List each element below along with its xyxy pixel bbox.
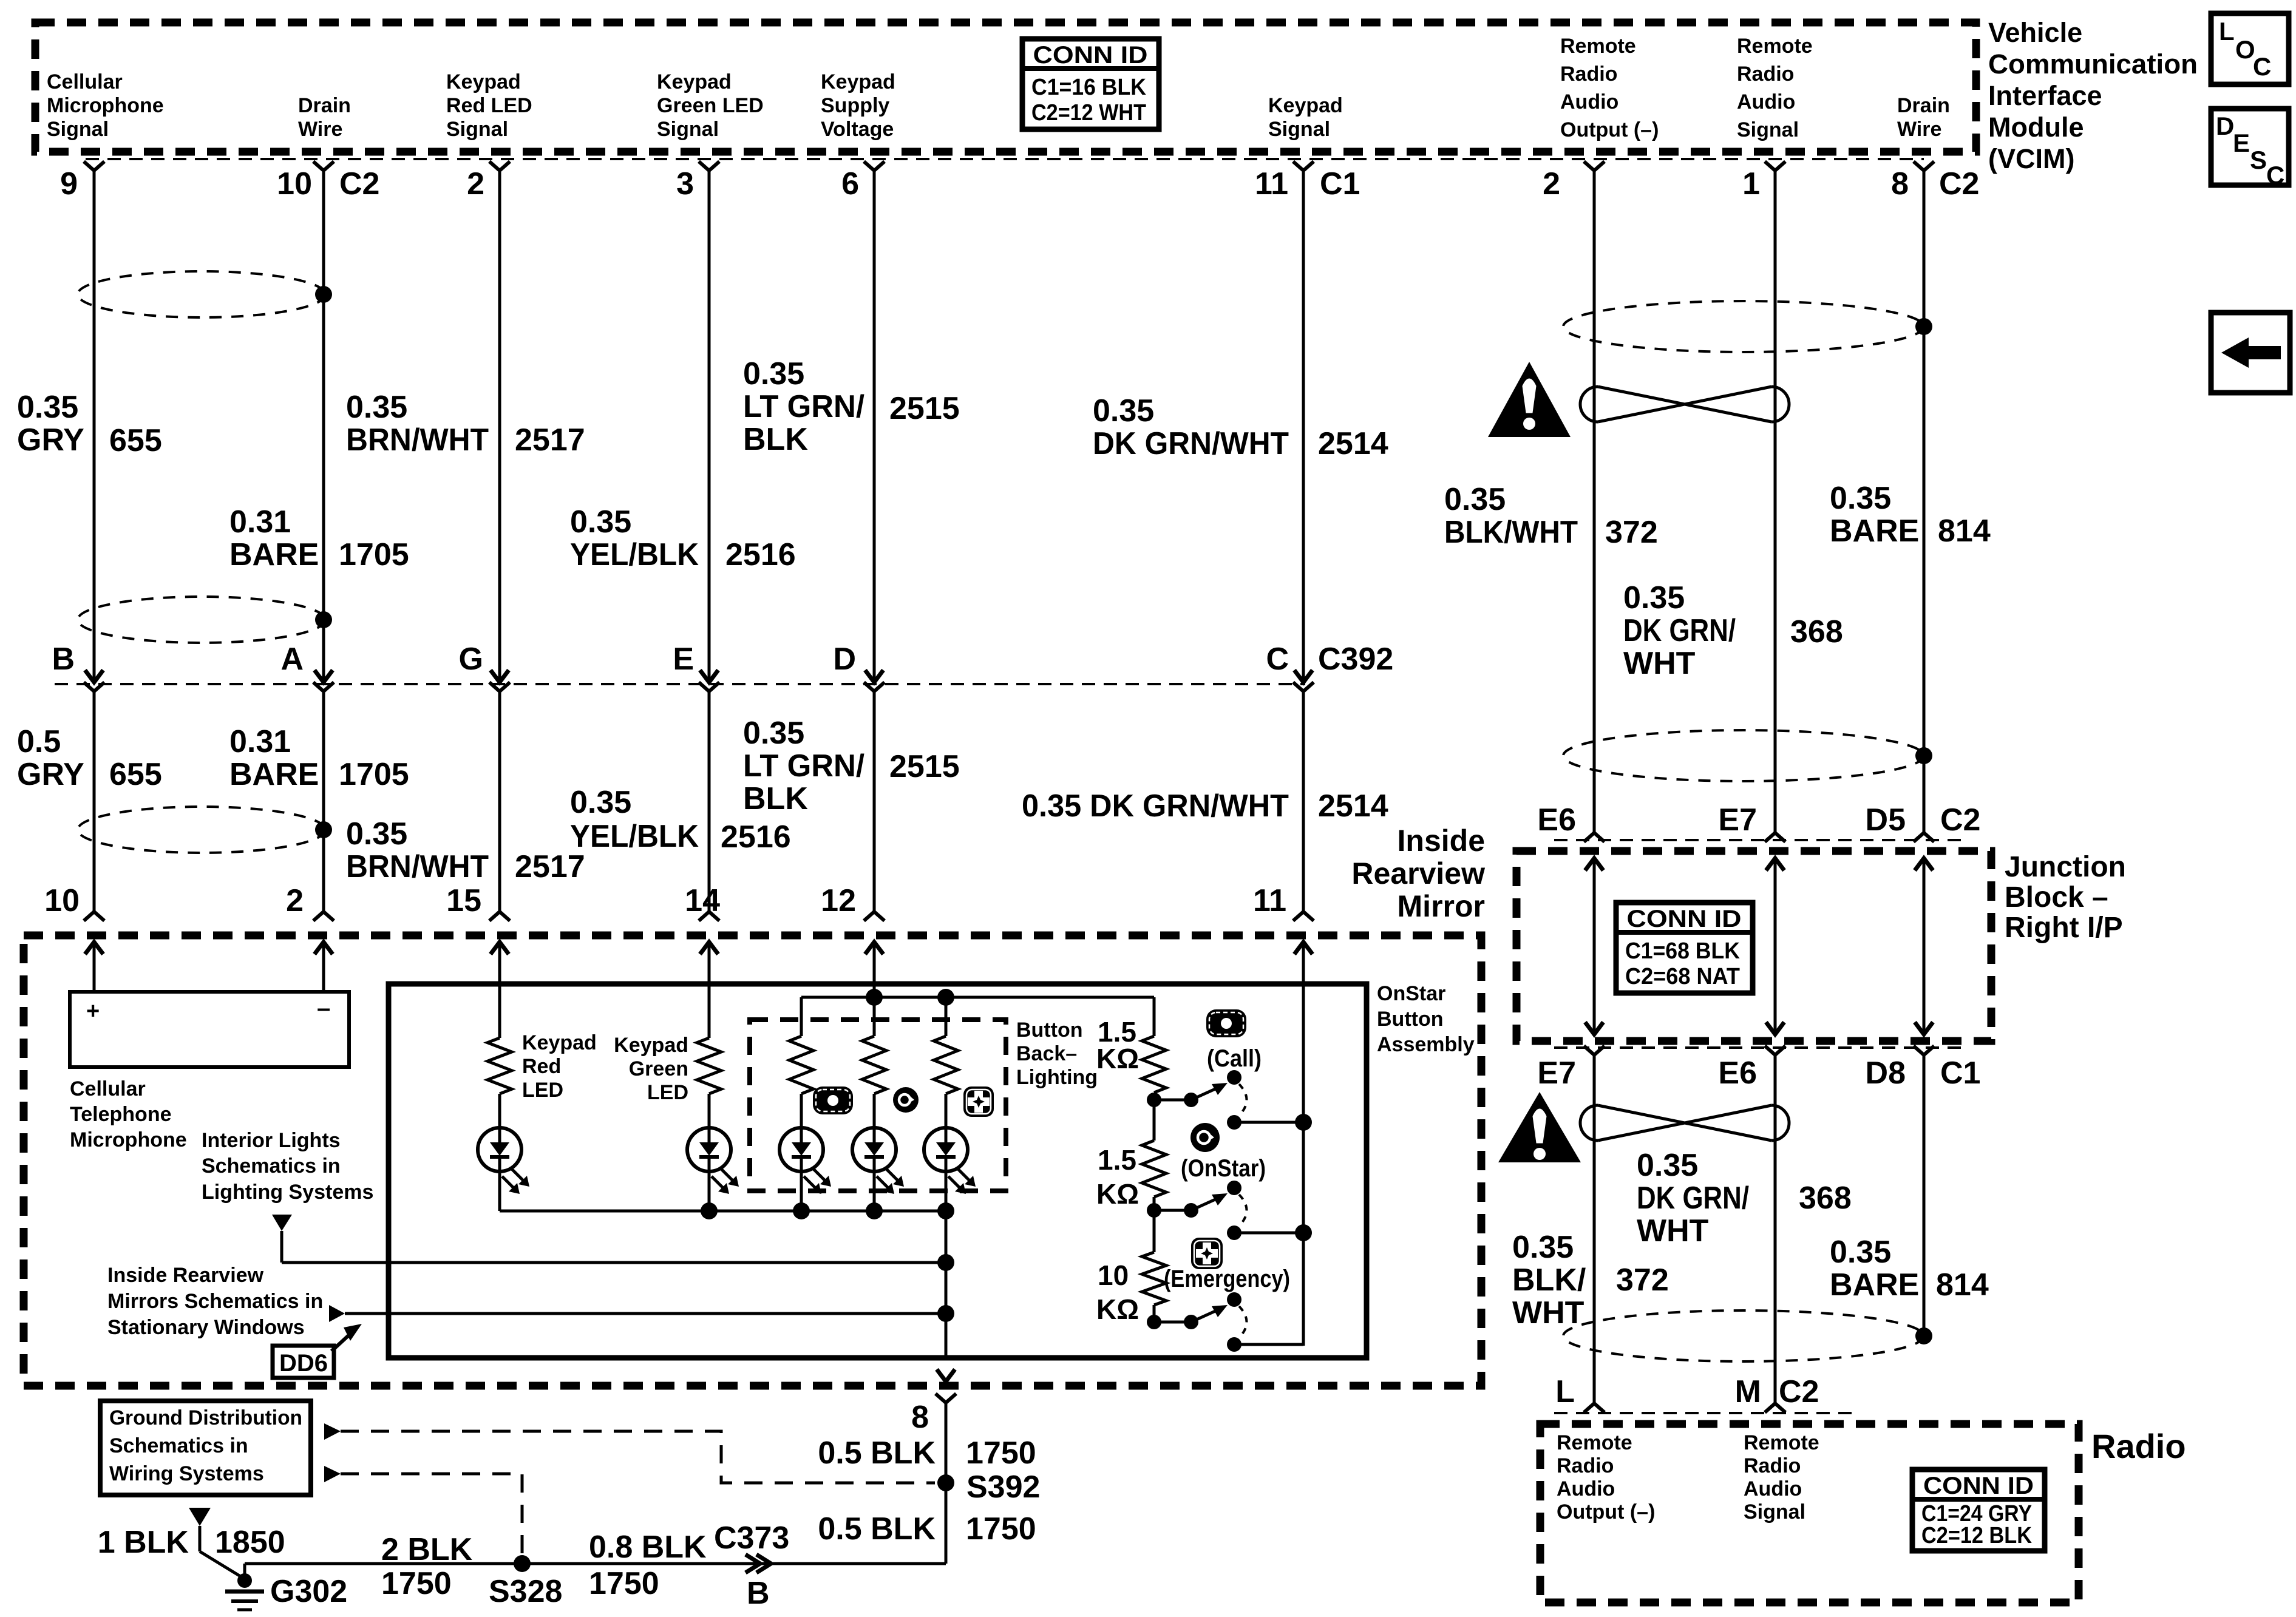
svg-text:DK GRN/: DK GRN/ — [1637, 1181, 1749, 1216]
svg-text:Wiring Systems: Wiring Systems — [109, 1462, 264, 1485]
svg-text:C1: C1 — [1940, 1056, 1980, 1091]
svg-text:E7: E7 — [1718, 802, 1757, 838]
svg-text:GRY: GRY — [17, 757, 84, 792]
svg-text:A: A — [280, 642, 304, 677]
svg-text:2514: 2514 — [1318, 426, 1388, 461]
svg-text:Inside Rearview: Inside Rearview — [107, 1264, 264, 1287]
svg-text:0.35 DK GRN/WHT: 0.35 DK GRN/WHT — [1022, 788, 1289, 824]
svg-text:372: 372 — [1605, 515, 1658, 550]
svg-text:Button: Button — [1377, 1008, 1444, 1031]
svg-text:2: 2 — [1543, 166, 1560, 202]
svg-text:814: 814 — [1936, 1267, 1989, 1303]
svg-text:L: L — [2219, 17, 2235, 46]
svg-text:G302: G302 — [270, 1574, 347, 1609]
svg-text:0.35: 0.35 — [1830, 481, 1891, 516]
svg-text:+: + — [86, 998, 100, 1024]
svg-text:0.35: 0.35 — [570, 504, 631, 540]
svg-text:Drain: Drain — [298, 94, 351, 117]
svg-text:Signal: Signal — [1744, 1500, 1805, 1524]
svg-text:3: 3 — [676, 166, 694, 202]
svg-text:C: C — [2253, 52, 2271, 81]
svg-text:Remote: Remote — [1557, 1431, 1632, 1454]
svg-text:Wire: Wire — [1897, 118, 1941, 141]
svg-text:C2: C2 — [1939, 166, 1979, 202]
svg-text:Radio: Radio — [2091, 1427, 2186, 1465]
svg-text:C1=16 BLK: C1=16 BLK — [1031, 75, 1147, 100]
svg-text:BARE: BARE — [229, 537, 319, 572]
svg-text:Mirror: Mirror — [1398, 889, 1485, 923]
svg-text:2: 2 — [467, 166, 484, 202]
svg-text:11: 11 — [1253, 883, 1286, 918]
svg-text:Green: Green — [629, 1057, 688, 1080]
svg-text:S: S — [2250, 146, 2267, 174]
svg-text:Lighting: Lighting — [1016, 1066, 1098, 1089]
svg-text:CONN ID: CONN ID — [1923, 1473, 2034, 1499]
svg-text:C2: C2 — [1779, 1374, 1819, 1409]
svg-text:BARE: BARE — [1830, 1267, 1919, 1303]
svg-text:2 BLK: 2 BLK — [381, 1532, 473, 1567]
svg-text:–: – — [317, 995, 330, 1022]
svg-text:0.5: 0.5 — [17, 724, 61, 759]
svg-text:WHT: WHT — [1637, 1213, 1709, 1249]
svg-text:E6: E6 — [1718, 1056, 1757, 1091]
svg-text:YEL/BLK: YEL/BLK — [570, 537, 699, 572]
svg-text:B: B — [747, 1576, 770, 1611]
svg-text:Radio: Radio — [1557, 1454, 1614, 1477]
svg-text:Block –: Block – — [2005, 881, 2108, 914]
svg-text:8: 8 — [911, 1400, 929, 1435]
svg-text:Junction: Junction — [2005, 851, 2126, 883]
svg-text:2: 2 — [286, 883, 304, 918]
svg-text:0.35: 0.35 — [346, 390, 407, 425]
svg-text:(Emergency): (Emergency) — [1164, 1266, 1290, 1292]
svg-text:Signal: Signal — [1737, 118, 1799, 141]
svg-text:Radio: Radio — [1737, 63, 1794, 86]
svg-text:Signal: Signal — [657, 118, 719, 141]
svg-text:Output (–): Output (–) — [1557, 1500, 1655, 1524]
svg-text:1: 1 — [1742, 166, 1760, 202]
svg-text:C2: C2 — [339, 166, 379, 202]
svg-text:Cellular: Cellular — [70, 1077, 146, 1100]
svg-text:Remote: Remote — [1560, 35, 1636, 58]
svg-text:KΩ: KΩ — [1096, 1293, 1139, 1325]
svg-text:1705: 1705 — [339, 757, 409, 792]
svg-text:LED: LED — [522, 1079, 563, 1102]
svg-text:M: M — [1735, 1374, 1761, 1409]
svg-text:1.5: 1.5 — [1098, 1144, 1136, 1176]
svg-text:10: 10 — [1098, 1259, 1129, 1291]
svg-text:C: C — [1266, 642, 1289, 677]
svg-text:Communication: Communication — [1988, 49, 2198, 80]
svg-text:BRN/WHT: BRN/WHT — [346, 849, 489, 884]
svg-text:E7: E7 — [1537, 1056, 1576, 1091]
svg-text:C2=68 NAT: C2=68 NAT — [1625, 964, 1740, 989]
svg-text:Cellular: Cellular — [47, 70, 123, 93]
svg-text:2515: 2515 — [889, 391, 960, 426]
svg-text:O: O — [2235, 35, 2255, 64]
svg-text:0.35: 0.35 — [1444, 482, 1506, 517]
svg-text:Keypad: Keypad — [821, 70, 895, 93]
svg-text:15: 15 — [446, 883, 481, 918]
svg-text:Audio: Audio — [1560, 90, 1618, 114]
svg-text:Interior Lights: Interior Lights — [202, 1129, 341, 1152]
svg-text:DK GRN/WHT: DK GRN/WHT — [1093, 426, 1289, 461]
svg-text:368: 368 — [1799, 1181, 1852, 1216]
svg-text:KΩ: KΩ — [1096, 1043, 1139, 1074]
svg-text:1 BLK: 1 BLK — [98, 1525, 189, 1560]
svg-text:1750: 1750 — [589, 1566, 659, 1601]
svg-text:11: 11 — [1255, 166, 1288, 202]
svg-text:Schematics in: Schematics in — [109, 1434, 248, 1457]
svg-text:Radio: Radio — [1560, 63, 1617, 86]
svg-text:0.35: 0.35 — [1637, 1148, 1698, 1183]
svg-text:Radio: Radio — [1744, 1454, 1801, 1477]
svg-text:Vehicle: Vehicle — [1988, 17, 2082, 48]
svg-text:LT GRN/: LT GRN/ — [743, 748, 864, 784]
svg-text:0.35: 0.35 — [346, 816, 407, 852]
svg-text:12: 12 — [821, 883, 856, 918]
svg-text:Supply: Supply — [821, 94, 889, 117]
svg-text:BLK/: BLK/ — [1512, 1263, 1586, 1298]
svg-text:Mirrors Schematics in: Mirrors Schematics in — [107, 1290, 323, 1313]
svg-text:C2=12 BLK: C2=12 BLK — [1921, 1523, 2032, 1548]
svg-text:0.35: 0.35 — [743, 716, 804, 751]
svg-text:BRN/WHT: BRN/WHT — [346, 422, 489, 458]
svg-text:D: D — [2216, 112, 2234, 140]
svg-text:GRY: GRY — [17, 422, 84, 458]
svg-text:Keypad: Keypad — [446, 70, 521, 93]
svg-text:1850: 1850 — [215, 1525, 285, 1560]
svg-text:D5: D5 — [1866, 802, 1906, 838]
svg-text:Signal: Signal — [1268, 118, 1330, 141]
svg-text:BLK: BLK — [743, 422, 808, 457]
svg-text:655: 655 — [109, 423, 162, 458]
svg-text:Signal: Signal — [446, 118, 508, 141]
svg-text:BLK/WHT: BLK/WHT — [1444, 515, 1578, 550]
svg-text:Telephone: Telephone — [70, 1103, 172, 1126]
svg-text:(Call): (Call) — [1207, 1045, 1262, 1072]
svg-text:814: 814 — [1938, 514, 1991, 549]
svg-text:Red: Red — [522, 1055, 561, 1078]
svg-text:Green LED: Green LED — [657, 94, 764, 117]
svg-text:Button: Button — [1016, 1019, 1083, 1042]
svg-text:1705: 1705 — [339, 537, 409, 572]
svg-text:Back–: Back– — [1016, 1042, 1077, 1065]
svg-text:Schematics in: Schematics in — [202, 1154, 341, 1178]
svg-text:LED: LED — [647, 1081, 688, 1104]
svg-text:0.8 BLK: 0.8 BLK — [589, 1530, 707, 1565]
svg-text:OnStar: OnStar — [1377, 982, 1445, 1005]
svg-text:372: 372 — [1616, 1263, 1669, 1298]
svg-text:D: D — [833, 642, 856, 677]
svg-text:Lighting Systems: Lighting Systems — [202, 1181, 373, 1204]
svg-text:Microphone: Microphone — [70, 1128, 187, 1151]
svg-text:B: B — [52, 642, 75, 677]
svg-text:Audio: Audio — [1557, 1477, 1615, 1500]
svg-text:368: 368 — [1790, 614, 1843, 649]
svg-text:Ground Distribution: Ground Distribution — [109, 1406, 302, 1429]
svg-text:6: 6 — [841, 166, 859, 202]
svg-text:C392: C392 — [1318, 642, 1393, 677]
svg-text:L: L — [1555, 1374, 1575, 1409]
svg-text:Microphone: Microphone — [47, 94, 164, 117]
svg-text:BARE: BARE — [1830, 514, 1919, 549]
svg-text:1750: 1750 — [966, 1511, 1036, 1547]
svg-text:CONN ID: CONN ID — [1627, 906, 1742, 932]
svg-text:0.35: 0.35 — [17, 390, 78, 425]
svg-text:C373: C373 — [714, 1520, 789, 1556]
svg-text:1750: 1750 — [381, 1566, 452, 1601]
svg-text:G: G — [459, 642, 483, 677]
svg-text:0.35: 0.35 — [1512, 1230, 1574, 1265]
svg-text:9: 9 — [60, 166, 78, 202]
svg-text:S328: S328 — [489, 1574, 562, 1609]
svg-text:Module: Module — [1988, 112, 2084, 143]
svg-text:Audio: Audio — [1744, 1477, 1802, 1500]
svg-text:2516: 2516 — [721, 819, 791, 855]
svg-text:Right I/P: Right I/P — [2005, 912, 2123, 944]
svg-text:2516: 2516 — [725, 537, 796, 572]
svg-text:(OnStar): (OnStar) — [1181, 1155, 1266, 1182]
svg-text:0.31: 0.31 — [229, 724, 291, 759]
svg-text:BARE: BARE — [229, 757, 319, 792]
svg-text:Assembly: Assembly — [1377, 1033, 1475, 1056]
svg-text:Red LED: Red LED — [446, 94, 532, 117]
svg-text:Inside: Inside — [1398, 824, 1485, 858]
svg-text:E: E — [673, 642, 694, 677]
svg-text:Keypad: Keypad — [1268, 94, 1343, 117]
svg-text:WHT: WHT — [1623, 646, 1696, 681]
svg-text:2514: 2514 — [1318, 788, 1388, 824]
svg-text:Keypad: Keypad — [657, 70, 732, 93]
svg-text:WHT: WHT — [1512, 1295, 1584, 1331]
svg-text:C: C — [2266, 161, 2284, 189]
svg-text:Interface: Interface — [1988, 80, 2102, 111]
svg-text:655: 655 — [109, 757, 162, 792]
svg-text:Remote: Remote — [1744, 1431, 1819, 1454]
svg-text:Keypad: Keypad — [614, 1034, 688, 1057]
svg-text:0.35: 0.35 — [1830, 1235, 1891, 1270]
svg-text:Keypad: Keypad — [522, 1031, 597, 1054]
svg-text:Drain: Drain — [1897, 94, 1950, 117]
svg-text:Remote: Remote — [1737, 35, 1813, 58]
svg-text:KΩ: KΩ — [1096, 1178, 1139, 1210]
svg-text:DD6: DD6 — [279, 1350, 328, 1377]
svg-text:10: 10 — [277, 166, 312, 202]
svg-text:D8: D8 — [1866, 1056, 1906, 1091]
svg-text:0.35: 0.35 — [570, 785, 631, 820]
svg-text:Rearview: Rearview — [1351, 856, 1485, 890]
svg-text:0.5 BLK: 0.5 BLK — [818, 1511, 936, 1547]
svg-text:C2=12 WHT: C2=12 WHT — [1031, 100, 1146, 126]
svg-text:S392: S392 — [966, 1470, 1040, 1505]
svg-text:0.35: 0.35 — [743, 356, 804, 392]
svg-text:Voltage: Voltage — [821, 118, 894, 141]
svg-text:Audio: Audio — [1737, 90, 1795, 114]
svg-text:E: E — [2233, 129, 2250, 157]
svg-text:DK GRN/: DK GRN/ — [1623, 613, 1736, 648]
svg-text:10: 10 — [44, 883, 80, 918]
svg-text:C1=68 BLK: C1=68 BLK — [1625, 938, 1741, 964]
svg-text:2515: 2515 — [889, 749, 960, 784]
svg-text:0.35: 0.35 — [1093, 393, 1154, 429]
svg-text:8: 8 — [1891, 166, 1909, 202]
svg-text:0.31: 0.31 — [229, 504, 291, 540]
svg-text:(VCIM): (VCIM) — [1988, 143, 2074, 174]
svg-text:Signal: Signal — [47, 118, 109, 141]
svg-text:Output (–): Output (–) — [1560, 118, 1659, 141]
svg-text:2517: 2517 — [515, 422, 585, 458]
svg-text:1750: 1750 — [966, 1436, 1036, 1471]
svg-text:0.5 BLK: 0.5 BLK — [818, 1436, 936, 1471]
svg-text:BLK: BLK — [743, 781, 808, 816]
svg-text:Stationary Windows: Stationary Windows — [107, 1316, 305, 1339]
svg-text:LT GRN/: LT GRN/ — [743, 389, 864, 424]
svg-text:CONN ID: CONN ID — [1033, 42, 1148, 69]
svg-text:E6: E6 — [1537, 802, 1576, 838]
svg-text:YEL/BLK: YEL/BLK — [570, 819, 699, 854]
svg-text:C2: C2 — [1940, 802, 1980, 838]
svg-text:Wire: Wire — [298, 118, 342, 141]
svg-text:14: 14 — [685, 883, 720, 918]
svg-text:C1: C1 — [1320, 166, 1360, 202]
svg-text:2517: 2517 — [515, 849, 585, 884]
svg-text:0.35: 0.35 — [1623, 580, 1685, 615]
